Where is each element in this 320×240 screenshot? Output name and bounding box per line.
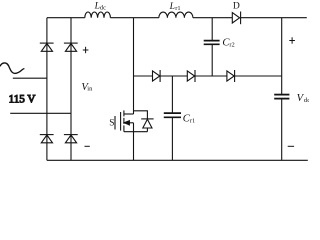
wire: right column upper (281, 18, 283, 95)
diode (middle 2) (187, 70, 195, 82)
MOSFET body arrow (124, 121, 133, 125)
capacitor Cr1 (164, 113, 181, 117)
body diode of S (141, 119, 153, 128)
svg-text:dc: dc (304, 97, 309, 104)
svg-text:D: D (233, 0, 240, 11)
svg-text:r2: r2 (229, 42, 234, 49)
wire: right bridge column (70, 18, 72, 161)
MOSFET channel segments (123, 110, 125, 131)
svg-text:in: in (87, 86, 93, 93)
wire: middle rail segment 3 (195, 75, 227, 77)
ac source 115 V sine symbol (0, 63, 24, 74)
svg-text:S: S (109, 119, 114, 129)
label - (Vin polarity) (85, 145, 90, 147)
label Ldc (94, 0, 106, 11)
svg-text:L: L (169, 1, 175, 12)
wire: ac upper terminal (13, 77, 47, 79)
capacitor Cr1 stem lower (171, 117, 173, 160)
bridge diode upper-right (64, 43, 78, 51)
label Cr1 (183, 114, 195, 125)
wire: ac lower terminal (10, 112, 71, 114)
MOSFET switch S : gate lead bar (114, 116, 116, 130)
label Cr2 (222, 38, 234, 49)
wire: middle rail segment 1 (134, 75, 153, 77)
wire: top rail between Ldc and Lr1 (110, 17, 158, 19)
wire: top rail right segment (241, 17, 307, 19)
bridge diode lower-left (40, 135, 54, 143)
inductor Lr1 (159, 12, 193, 18)
wire: bottom rail (47, 159, 308, 161)
MOSFET drain stub (124, 113, 134, 115)
wire: source lead to bottom rail (133, 132, 135, 161)
output capacitor (274, 95, 289, 99)
wire: right column lower (281, 99, 283, 161)
svg-text:r1: r1 (175, 5, 180, 12)
label Lr1 (169, 1, 181, 12)
wire: middle rail segment 4 (235, 75, 282, 77)
wire: top rail between Lr1 and diode D (193, 17, 232, 19)
wire: drain lead from top rail to MOSFET (133, 18, 135, 114)
diode (middle 3) (227, 70, 235, 82)
wire: top rail left segment (47, 17, 85, 19)
diode D (232, 12, 240, 25)
diode (middle 1) (153, 70, 161, 82)
body diode branch bottom (146, 128, 148, 132)
capacitor Cr1 stem upper (171, 76, 173, 113)
capacitor Cr2 stem lower (211, 44, 213, 76)
svg-text:r1: r1 (190, 118, 195, 125)
wire: left bridge column (46, 18, 48, 161)
label Vdc (297, 93, 311, 104)
wire: arrow-to-source join (133, 123, 135, 132)
svg-text:115 V: 115 V (9, 94, 36, 106)
MOSFET source stub (124, 131, 147, 133)
bridge diode lower-right (64, 135, 78, 143)
label + (Vdc polarity) (289, 37, 295, 43)
body diode branch top (134, 111, 148, 119)
bridge diode upper-left (40, 43, 54, 51)
svg-text:dc: dc (100, 5, 106, 12)
label - (Vdc polarity) (288, 145, 294, 147)
capacitor Cr2 stem upper (211, 18, 213, 41)
capacitor Cr2 (204, 41, 220, 45)
inductor Ldc (85, 12, 111, 18)
MOSFET gate bar (120, 112, 122, 131)
label Vin (81, 82, 93, 93)
label + (Vin polarity) (83, 47, 89, 53)
wire: middle rail segment 2 (160, 75, 187, 77)
